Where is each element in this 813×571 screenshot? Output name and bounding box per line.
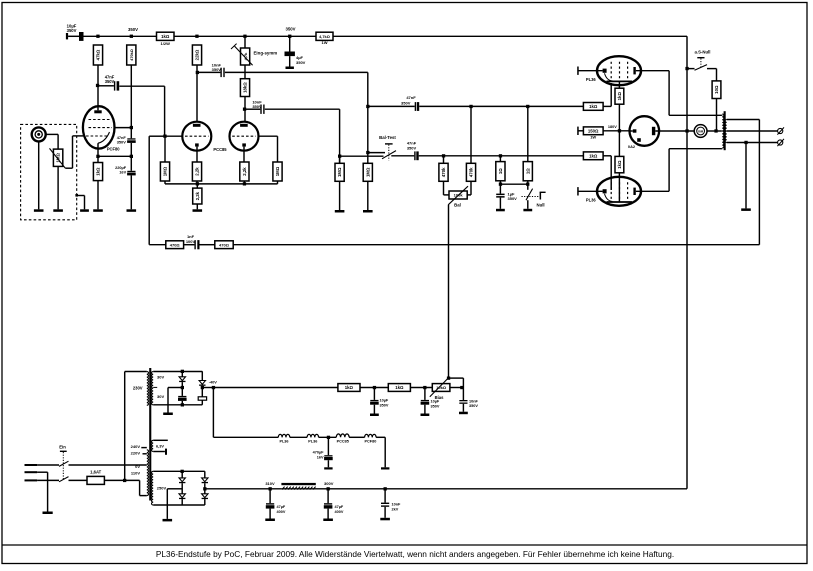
capacitor C13 plates [198,397,206,400]
resistor R18 grid stopper lower [583,152,603,160]
tube V1 PCF80 envelope [83,106,115,148]
wire R21 to center node [618,104,620,131]
wire P1 to R6 [244,65,246,79]
node Bal wiper join [447,377,450,380]
tube V2a cathode bar [195,143,199,146]
wire through choke [281,488,328,490]
switch S2 Bal-Test arm [382,151,396,159]
svg-text:1/2W: 1/2W [161,41,171,46]
wire R24 to meter node [716,99,718,132]
node filter cap 1 [327,487,330,490]
svg-text:PCF80: PCF80 [364,440,376,444]
node choke in [269,487,272,490]
switch S4 linkage dashed [62,452,64,480]
svg-text:Bal-Test: Bal-Test [379,135,396,140]
wire sense bus [500,183,527,185]
wire center node to R22 [618,131,620,157]
wire to D5 [204,471,206,478]
transformer T1 HT winding [151,471,153,505]
svg-text:1kΩ: 1kΩ [395,385,404,390]
transformer T1 bias winding [152,372,154,405]
wire R22 cathode lead V4 [618,173,620,202]
wire B+ raw run [205,488,282,490]
capacitor C20 10nF plates [381,503,389,507]
capacitor C2 47nF 350V coupling plates [114,81,119,90]
node bridge top [181,470,184,473]
wire lower line to R19 [499,156,501,162]
terminal speaker lower [777,139,784,146]
capacitor C12 electrolytic plates [178,396,187,401]
wire R8 to bus [196,181,198,184]
wire V2b grid to R11 [277,136,279,162]
wire upper line to R20 [527,106,529,161]
resistor R28 bias [388,384,410,392]
node rail at C5 [288,35,291,38]
svg-text:350V: 350V [252,104,262,109]
switch S3 linkage dashed [522,196,539,198]
resistor R26 feedback [215,241,233,249]
capacitor C4 220uF 16V cathode bypass plates [127,171,136,176]
terminal mains N [25,479,38,481]
capacitor C6 10nF 350V coupling plates [220,68,224,77]
switch S1 linkage dashed [700,58,702,68]
wire R15 to Bal [443,181,445,195]
node doubler mid [181,386,184,389]
wire D6 to bottom [204,499,206,505]
wire primary riser [124,372,126,481]
terminal bar V3 grid [577,67,579,75]
resistor R21 cathode V3 [615,88,624,104]
wire C14 to ground [373,405,375,414]
terminal bar heater cap [324,467,332,469]
svg-text:1MΩ: 1MΩ [275,166,280,176]
wire down to pot [57,134,59,149]
svg-text:350V: 350V [407,145,417,150]
terminal bar heater end [381,467,389,469]
resistor R25 feedback [166,241,184,249]
heater coil V4 PL36 [307,434,318,437]
tube V4 anode bar [633,188,635,195]
wire cathode bus [98,155,131,157]
ground at C5 [286,67,294,70]
svg-text:470Ω: 470Ω [170,242,181,247]
stabilizer V5 left pin square [633,129,637,132]
resistor R3 1k rail dropper [157,32,175,40]
wire mains PE [37,471,48,473]
ground at C16 [459,412,468,415]
node B+ at S1 [685,67,688,70]
svg-text:2,2k: 2,2k [195,167,200,176]
svg-text:1W: 1W [590,135,596,140]
ground at C14 [370,414,379,417]
capacitor C14 10uF plates [370,400,379,405]
transformer T2 secondary winding [725,120,727,143]
potentiometer P1 arrow tick [231,44,237,49]
wire down to C16 node [462,378,464,400]
tube V4 PL36 envelope [597,177,641,206]
wire heater line end [376,436,385,438]
resistor R17 grid stopper upper [583,103,603,111]
svg-text:1MΩ: 1MΩ [337,167,342,177]
svg-text:350V: 350V [67,28,77,33]
svg-text:250V: 250V [157,486,167,491]
input jack J1 outer ring [32,127,46,141]
svg-text:350V: 350V [401,100,411,105]
wire jack tip to pot top [46,133,58,135]
svg-text:10nF: 10nF [392,503,402,507]
svg-text:18kΩ: 18kΩ [243,82,248,93]
svg-text:47µF: 47µF [335,505,344,509]
resistor R13 return upper [363,163,372,181]
wire to D1 [181,371,183,377]
wire to primary top [669,114,721,116]
tube V2b anode bar [240,124,248,127]
wire terminal to R23 [578,130,584,132]
diode D5 [202,478,208,483]
wire B+ feed vertical [686,36,688,489]
wire to C15 [424,388,426,400]
wire V4 grid lead through top [610,156,612,190]
diode D6 [202,494,208,499]
node bias out [201,386,204,389]
tube V3 grid pin square [603,69,607,73]
tube V4 cathode arc [605,194,613,202]
wire heater line 1 [213,436,278,438]
svg-text:180V: 180V [608,125,617,129]
svg-text:Eing-symm: Eing-symm [254,51,278,56]
switch S1 linkage bar [697,57,704,58]
tube V4 grid dashed 1 [610,182,612,202]
svg-text:Bias: Bias [435,395,445,400]
transformer T1 primary lower [147,450,149,496]
node meter shunt [714,129,717,132]
wire aux top stub [153,439,168,441]
svg-text:2,2k: 2,2k [195,191,200,200]
stabilizer V5 lower pin square [637,138,641,142]
wire to C20 [384,489,386,503]
wire grid node to feedback corner [149,135,165,137]
diode D4 [179,494,185,499]
wire B+ filtered run [328,488,687,490]
wire secondary to ground [745,143,747,209]
node B+ meter tap [685,129,688,132]
node bias filter 1 [373,386,376,389]
svg-text:220V: 220V [131,451,141,456]
capacitor C3 47nF screen bypass plates [127,138,136,143]
wire shield drop [84,196,86,210]
node lower line at R14 [338,155,341,158]
node V1 cathode [96,155,99,158]
wire primary tap join [720,130,723,132]
node rail at R2 [130,35,133,38]
wire C10 to ground [499,198,501,209]
resistor R23 common [583,127,603,135]
wire C19 to ground [327,509,329,519]
wire C16 to ground [462,404,464,412]
wire R2 to screen node [130,65,132,138]
input jack J1 center [37,133,40,136]
wire heater feed drop [212,388,214,438]
switch S4 linkage bar [60,451,67,452]
resistor R27 bias [338,384,360,392]
stabilizer V5 anode bar [652,127,655,135]
node V1 screen [130,126,133,129]
wire R14 to ground [339,181,341,210]
capacitor C16 10nF plates [459,400,467,404]
svg-text:1kΩ: 1kΩ [96,167,101,176]
wire top to D2 [201,371,203,380]
node doubler bottom [181,403,184,406]
svg-text:Ein: Ein [59,445,66,450]
svg-text:10µF: 10µF [431,400,440,404]
wire V3 grid lead through bottom [610,83,612,106]
wire V3 anode out [636,70,669,72]
svg-text:470µF: 470µF [313,450,325,454]
svg-text:350V: 350V [296,60,306,65]
wire upper line left [368,105,415,107]
tube V4 grid dashed 3 [627,182,629,202]
wire S1 to R24 [707,68,717,70]
node primary feed [123,479,126,482]
node lower sense R [499,154,502,157]
svg-text:16V: 16V [317,456,324,460]
wire secondary top tap [727,119,760,121]
tube V4 grid dashed 2 [619,182,621,202]
svg-text:30V: 30V [157,394,164,399]
svg-text:470Ω: 470Ω [219,242,230,247]
node V2a grid [163,135,166,138]
wire R19 down [499,181,501,194]
svg-text:PL36-Endstufe by PoC, Februar: PL36-Endstufe by PoC, Februar 2009. Alle… [156,549,674,559]
wire step down [139,480,141,495]
wire primary bottom join [720,148,723,150]
capacitor C19 47uF plates [324,503,333,508]
ground at J1 [34,209,44,212]
svg-text:PL36: PL36 [586,198,597,203]
svg-text:310V: 310V [265,481,275,486]
tube V2a grid dashed [185,135,209,137]
tube V3 grid dashed 2 [619,62,621,81]
svg-text:1kΩ: 1kΩ [161,34,170,39]
svg-text:Null: Null [537,203,545,208]
svg-text:16V: 16V [119,170,126,175]
resistor R19 sense left [496,162,505,181]
svg-text:350V: 350V [380,403,389,407]
capacitor C1 10uF 350V plate [79,32,84,41]
wire P3 right terminal [450,387,464,389]
node P3 out [460,386,463,389]
tube V3 cathode arc [605,73,613,81]
wire mid to ground leg [168,387,182,389]
capacitor C18 47uF plates [266,503,275,508]
wire bridge ground leg [166,489,168,519]
wire corner down to V2 grid node [164,86,166,136]
tube V2b cathode bar [242,143,246,146]
wire V4 anode out [636,190,669,192]
wire upper node to R16 [470,106,472,163]
resistor R6 right anode load [240,79,249,97]
svg-text:30V: 30V [157,375,164,380]
tube V3 PL36 envelope [597,56,641,85]
potentiometer P0 wiper arrow [50,148,66,168]
svg-text:350V: 350V [105,79,115,84]
svg-text:PCF80: PCF80 [107,147,120,152]
svg-text:350V: 350V [128,27,138,32]
wire upper line right [419,105,583,107]
potentiometer P3 Bias [432,384,450,392]
ground at bridge [163,519,173,522]
ground at S3 [523,209,532,212]
resistor R24 meter shunt [712,81,721,99]
wire C15 to ground [424,405,426,414]
svg-text:1,6AT: 1,6AT [90,469,102,474]
wire to C14 [373,388,375,400]
wire C1 terminal to plate [68,35,79,37]
svg-text:0V: 0V [135,464,140,469]
wire D5 to out [204,483,206,494]
wire R25 to C11 [184,244,195,246]
heater coil V1 PCF80 [365,434,376,437]
svg-text:10µF: 10µF [380,399,389,403]
wire R15 into Bal left [444,194,450,196]
wire S4 to primary tap [69,464,147,466]
potentiometer P2 arrow [448,186,468,205]
wire B+ to S1 [687,68,695,70]
inductor L1 choke winding hatches [282,487,316,490]
svg-text:350V: 350V [285,26,295,31]
svg-text:47µF: 47µF [277,505,286,509]
svg-text:1kΩ: 1kΩ [589,104,598,109]
wire primary top join [720,114,723,116]
capacitor C9 47nF 350V plates [414,151,418,160]
wire rail to P1 [244,36,246,48]
wire V4 anode rise [668,149,670,192]
wire R16 to Bal [470,181,472,195]
stabilizer tube V5 envelope [630,116,660,146]
wire C3 to cathode bus [130,143,132,171]
node B+ raw [203,487,206,490]
switch S3 I-Null arm [526,189,533,201]
wire V2b grid line [259,135,278,137]
svg-text:100V: 100V [186,239,196,244]
wire bias winding tap jog [153,386,157,388]
capacitor C15 10uF plates [421,400,430,405]
wire ground leg [167,388,169,413]
ground at doubler [163,413,173,416]
svg-text:400V: 400V [335,510,344,514]
svg-text:2,2k: 2,2k [242,167,247,176]
fuse F1 [87,476,104,484]
wire wiper to V1 grid [73,135,84,137]
shield dashed box [21,124,77,219]
switch S3 linkage bar [540,192,546,200]
wire to primary bottom [669,148,721,150]
svg-text:47kΩ: 47kΩ [96,49,101,60]
transformer T1 primary upper [147,372,149,406]
potentiometer P1 Eing-symm trimmer [241,48,250,65]
wire to primary bottom [140,495,147,497]
wire V4 grid stub [578,190,603,192]
wire R6 to V2b anode [244,97,246,122]
ground at P0 [53,209,63,212]
wire doubler top [153,371,202,373]
resistor R16 grid upper [466,163,475,181]
svg-text:1kΩ: 1kΩ [589,153,598,158]
resistor R2 screen feed [127,45,136,65]
wire tap 240V [141,447,147,449]
switch S2 linkage bar [385,143,393,144]
potentiometer P2 Bal [449,191,467,199]
wire V2b cathode lead [243,147,245,162]
wire R11 to bus [277,181,279,184]
ground at C20 [380,518,390,521]
wire tap 220V [143,453,147,455]
wire R5 to V2a anode [196,65,198,122]
svg-text:1kΩ: 1kΩ [345,385,354,390]
node sense left [499,183,502,186]
resistor R5 left anode load [192,45,201,65]
wire heater line 3 [319,436,337,438]
wire shield tap [77,195,85,197]
resistor R1 anode load [93,45,102,65]
terminal bar aux winding [165,449,167,455]
ground at C18 [265,519,275,522]
capacitor C5 4uF 350V electrolytic plate [285,52,295,57]
wire rail to C5 [289,36,291,51]
ground at C4 [127,209,137,212]
wire down to R24 [716,69,718,81]
wire switch to C9 [391,155,414,157]
svg-text:1kΩ: 1kΩ [617,160,622,169]
wire lower node to R14 [339,156,341,163]
tube V1 cathode arc [98,132,110,143]
heater coil V3 PL36 [278,434,289,437]
wire C4 to ground [130,175,132,209]
node upper grid R [469,105,472,108]
wire to D3 [181,471,183,478]
node upper line at R13 [366,105,369,108]
capacitor C11 1nF 100V plates [194,240,199,249]
wire B+ rail left segment [84,35,157,37]
tube V2b grid dashed [232,135,256,137]
wire bridge top [153,470,205,472]
wire R23 to stabilizer [603,130,630,132]
node rail at P1 [243,35,246,38]
svg-text:1MΩ: 1MΩ [365,167,370,177]
wire corner down lower drive line [339,109,341,163]
wire secondary out lower [727,142,778,144]
resistor R4 cathode [93,163,102,181]
terminal mains PE [25,471,38,473]
wire R4 to ground [97,181,99,210]
wire bridge bottom [153,504,205,506]
wire C13 to bottom [201,400,203,405]
node shield tap [75,194,78,197]
resistor R8 cathode left [192,162,201,181]
tube V3 grid dashed 1 [610,62,612,81]
wire anode tap to C2 [98,85,114,87]
wire R13 to ground [367,181,369,210]
wire Bal-Test stub from upper line [368,152,385,154]
node secondary ground tap [744,141,747,144]
tube V3 anode bar [633,67,635,74]
resistor R12 tail [193,188,202,204]
svg-text:10nF: 10nF [469,399,479,403]
svg-text:a.S-Null: a.S-Null [695,50,711,55]
caption separator line [2,544,807,546]
switch S4 Ein arm upper [59,461,69,466]
diode D1 [179,377,185,382]
